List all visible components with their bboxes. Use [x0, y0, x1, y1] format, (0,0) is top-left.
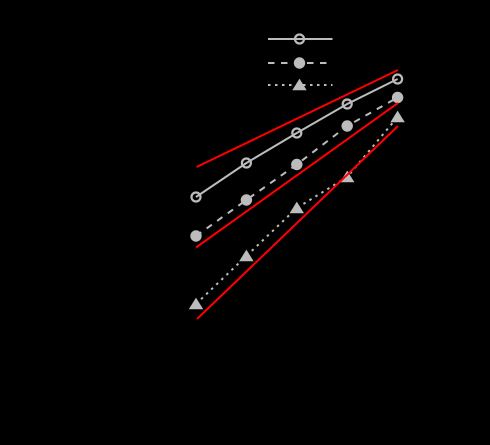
- series 3 marker 2: [239, 250, 253, 262]
- series 3 marker 5: [390, 111, 404, 123]
- series 2 marker 4: [342, 120, 353, 131]
- red fit line C (bottom): [197, 126, 398, 319]
- legend entry 3 marker (filled triangle): [292, 79, 306, 91]
- series 1 marker 4: [343, 100, 352, 109]
- series 2 line (dashed, filled circles): [196, 98, 398, 237]
- series 2 marker 1: [190, 230, 201, 241]
- series 2 marker 2: [241, 194, 252, 205]
- series 1 marker 1: [192, 193, 201, 202]
- series 1 line (solid, open circles): [196, 79, 398, 197]
- series 3 marker 1: [189, 298, 203, 310]
- legend entry 2 marker (filled circle): [294, 57, 305, 68]
- red fit line A (top): [197, 70, 399, 167]
- legend entry 3 line (dotted): [268, 84, 333, 86]
- series 3 line (dotted, filled triangles): [196, 117, 398, 304]
- series 3 marker 3: [290, 202, 304, 214]
- series 1 marker 3: [292, 129, 301, 138]
- legend entry 1 line (solid): [268, 38, 333, 40]
- series 1 marker 5: [393, 75, 402, 84]
- red fit line B (middle): [196, 103, 398, 248]
- legend entry 1 marker (open circle): [295, 35, 304, 44]
- series 2 marker 3: [291, 159, 302, 170]
- series 3 marker 4: [340, 171, 354, 183]
- legend entry 2 line (dashed): [268, 62, 333, 64]
- series 1 marker 2: [242, 159, 251, 168]
- series 2 marker 5: [392, 92, 403, 103]
